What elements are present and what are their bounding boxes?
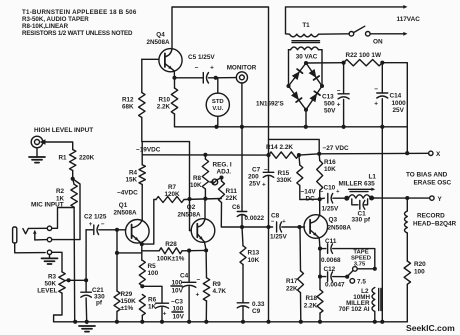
wire Y line <box>372 197 430 199</box>
wire Q1 emitter <box>141 243 142 245</box>
svg-text:1/25V: 1/25V <box>322 206 339 213</box>
svg-text:−4VDC: −4VDC <box>117 190 138 197</box>
svg-text:−: − <box>374 86 378 93</box>
wire Q2 top <box>204 199 206 219</box>
svg-text:Q4: Q4 <box>156 32 165 39</box>
svg-text:R22 100 1W: R22 100 1W <box>346 52 382 59</box>
svg-text:T1-BURNSTEIN APPLEBEE 18 B 506: T1-BURNSTEIN APPLEBEE 18 B 506 <box>22 9 137 16</box>
capacitor C4 <box>188 251 190 282</box>
svg-text:−: − <box>337 88 341 95</box>
resistor R4 <box>139 165 145 185</box>
svg-text:C12: C12 <box>324 266 336 273</box>
svg-text:1N1692'S: 1N1692'S <box>256 101 284 108</box>
svg-text:+: + <box>337 102 341 109</box>
wire -19VDC line <box>142 154 268 156</box>
wire R7 right node <box>184 199 221 200</box>
svg-text:120K: 120K <box>164 191 180 198</box>
svg-text:500: 500 <box>324 101 335 108</box>
svg-text:Q3: Q3 <box>329 217 338 224</box>
switch TAPE SPEED <box>348 271 353 276</box>
wire Q4 emitter <box>173 72 175 78</box>
resistor R14 <box>269 152 299 158</box>
svg-text:100: 100 <box>148 270 159 277</box>
svg-text:R9: R9 <box>213 281 222 288</box>
wire ground bus <box>54 321 408 323</box>
svg-text:C2 1/25: C2 1/25 <box>84 214 107 221</box>
svg-text:100K±1%: 100K±1% <box>157 256 185 263</box>
svg-text:R11: R11 <box>226 188 238 195</box>
svg-text:70F 102 AI: 70F 102 AI <box>339 306 370 313</box>
wire mic sleeve to R3 <box>52 252 62 272</box>
inductor L1 <box>344 196 349 201</box>
resistor R1 <box>70 150 76 171</box>
svg-text:R16: R16 <box>324 159 336 166</box>
svg-text:R8: R8 <box>193 175 202 182</box>
svg-text:1/25V: 1/25V <box>270 234 287 241</box>
capacitor C7 <box>268 155 270 172</box>
svg-text:10V: 10V <box>172 288 184 295</box>
transformer T1 primary <box>286 33 290 35</box>
capacitor C3 <box>142 286 162 303</box>
resistor R20 <box>404 261 410 284</box>
capacitor C11 <box>320 248 326 250</box>
svg-text:REG. I: REG. I <box>213 162 232 169</box>
svg-text:−14V: −14V <box>301 189 317 196</box>
wire wiper line to C21 <box>85 280 87 291</box>
svg-text:Y: Y <box>438 196 443 203</box>
capacitor C6 <box>237 211 247 213</box>
svg-text:10K: 10K <box>248 257 260 264</box>
svg-text:−C3: −C3 <box>171 299 183 306</box>
switch contact 7.5 <box>350 279 355 284</box>
capacitor C21 <box>81 291 92 293</box>
R3 wiper arrow <box>66 279 70 283</box>
wire base branch to R29 <box>116 230 118 291</box>
svg-text:pf: pf <box>96 300 103 307</box>
bridge diode D2 <box>309 69 317 78</box>
svg-text:200: 200 <box>248 174 259 181</box>
svg-text:ERASE OSC: ERASE OSC <box>414 180 452 187</box>
svg-text:R4: R4 <box>129 170 138 177</box>
wire supply rail <box>175 126 408 128</box>
svg-text:22K: 22K <box>286 286 298 293</box>
transformer T1 secondary <box>291 47 319 50</box>
svg-text:100: 100 <box>414 269 425 276</box>
svg-text:TO BIAS AND: TO BIAS AND <box>406 172 448 179</box>
svg-text:MONITOR: MONITOR <box>227 65 257 72</box>
svg-text:−: − <box>101 221 105 228</box>
wire C2 to Q1 base <box>117 229 126 231</box>
svg-text:R14 2.2K: R14 2.2K <box>266 144 293 151</box>
wire X line <box>319 152 428 155</box>
bridge diode D3 <box>291 91 299 100</box>
resistor R12 <box>139 93 145 118</box>
svg-text:0.0068: 0.0068 <box>321 257 341 264</box>
jack HIGH LEVEL INPUT <box>31 136 43 148</box>
R8 wiper <box>210 180 214 183</box>
svg-text:2.2K: 2.2K <box>157 104 171 111</box>
switch ON <box>349 32 354 37</box>
svg-text:−: − <box>197 277 201 284</box>
mic contact 2 <box>47 237 51 241</box>
svg-text:ON: ON <box>373 39 383 46</box>
svg-text:C6: C6 <box>232 204 241 211</box>
svg-text:C13: C13 <box>322 94 334 101</box>
ground bottom bus <box>86 322 88 324</box>
svg-text:−: − <box>264 167 268 174</box>
mic contact 3 <box>47 250 51 254</box>
svg-text:R20: R20 <box>414 261 426 268</box>
svg-text:0.0022: 0.0022 <box>245 215 265 222</box>
svg-text:RESISTORS 1/2 WATT UNLESS NOTE: RESISTORS 1/2 WATT UNLESS NOTED <box>22 30 133 37</box>
svg-text:R10: R10 <box>158 97 170 104</box>
svg-text:2N508A: 2N508A <box>146 39 170 46</box>
svg-text:1000: 1000 <box>392 100 407 107</box>
wire Q2 base <box>189 199 191 231</box>
mic V contact <box>23 229 28 234</box>
wire monitor column below rail <box>241 127 243 207</box>
svg-text:+: + <box>262 182 266 189</box>
resistor R7 <box>156 197 184 203</box>
svg-text:10K: 10K <box>190 182 202 189</box>
svg-text:R8-10K,LINEAR: R8-10K,LINEAR <box>22 23 69 30</box>
resistor R16 <box>318 154 321 161</box>
svg-text:C7: C7 <box>252 167 261 174</box>
svg-text:T1: T1 <box>302 22 310 29</box>
wire base line <box>242 226 273 228</box>
svg-text:R17: R17 <box>286 278 298 285</box>
svg-text:150K: 150K <box>121 298 137 305</box>
resistor R22 <box>342 61 346 65</box>
capacitor C1 <box>352 199 358 205</box>
svg-text:RECORD: RECORD <box>417 213 445 220</box>
transistor Q1 <box>126 220 150 244</box>
svg-text:220K: 220K <box>79 155 95 162</box>
svg-text:R13: R13 <box>248 250 260 257</box>
jack MIC INPUT body <box>13 227 17 243</box>
wire Q4 collector to top rail <box>172 7 269 155</box>
wire jack to R1 <box>43 142 73 150</box>
svg-text:SeekIC.com: SeekIC.com <box>406 323 455 333</box>
potentiometer R3 <box>59 272 65 293</box>
svg-text:10V: 10V <box>173 314 185 321</box>
L1 core arrow <box>349 188 372 190</box>
svg-text:R15: R15 <box>278 170 290 177</box>
wire R14 bypass <box>269 139 320 153</box>
wire R7 left lead <box>142 200 156 245</box>
potentiometer R8 <box>203 153 207 157</box>
svg-text:7.5: 7.5 <box>357 279 366 286</box>
wire 117VAC top line <box>286 7 405 34</box>
jack MONITOR <box>236 72 247 83</box>
resistor R18 <box>319 277 321 290</box>
svg-text:0.33: 0.33 <box>252 301 265 308</box>
svg-text:10K: 10K <box>324 166 336 173</box>
svg-text:X: X <box>436 151 441 158</box>
wire Q2 bottom <box>205 242 207 250</box>
svg-text:Q2: Q2 <box>187 204 196 211</box>
svg-text:+: + <box>89 221 93 228</box>
svg-text:22K: 22K <box>226 195 238 202</box>
svg-text:330K: 330K <box>277 177 293 184</box>
inductor L2 <box>372 288 375 312</box>
bridge diode D1 <box>292 71 300 80</box>
wire Q3 bottom <box>318 238 321 249</box>
meter STD V.U. <box>217 78 219 93</box>
svg-text:DC: DC <box>306 196 316 203</box>
ground mic <box>49 255 51 259</box>
svg-text:68K: 68K <box>122 104 134 111</box>
svg-text:15K: 15K <box>125 177 137 184</box>
svg-text:R1: R1 <box>58 155 67 162</box>
resistor R29 <box>114 291 120 312</box>
resistor R13 <box>242 227 243 246</box>
wire Q4 base <box>142 58 159 60</box>
svg-text:C5 1/25V: C5 1/25V <box>188 54 215 61</box>
svg-text:−: − <box>195 65 199 72</box>
svg-text:C10: C10 <box>324 185 336 192</box>
transformer T1 core <box>292 40 320 42</box>
capacitor C14 <box>381 63 383 93</box>
inductor record head <box>406 198 408 211</box>
wire R20 to bus <box>406 284 408 322</box>
capacitor C9 <box>237 302 249 304</box>
svg-text:R7: R7 <box>168 184 177 191</box>
svg-text:±1%: ±1% <box>121 305 134 312</box>
svg-text:330 pf: 330 pf <box>352 217 371 224</box>
svg-text:2N508A: 2N508A <box>328 225 352 232</box>
resistor R15 <box>298 155 301 165</box>
svg-text:25V: 25V <box>249 181 261 188</box>
resistor R6 <box>139 295 145 316</box>
capacitor C12 <box>319 249 321 277</box>
svg-text:C14: C14 <box>390 93 402 100</box>
svg-text:ADJ.: ADJ. <box>217 169 232 176</box>
resistor R28 <box>142 250 159 252</box>
transistor Q3 <box>304 215 328 239</box>
mic contact 1 <box>47 226 51 230</box>
svg-text:C4: C4 <box>180 273 189 280</box>
svg-text:R3-50K, AUDIO TAPER: R3-50K, AUDIO TAPER <box>22 16 89 23</box>
svg-text:C11: C11 <box>325 238 337 245</box>
svg-text:R3: R3 <box>48 274 57 281</box>
capacitor C8 <box>276 222 278 232</box>
svg-text:+: + <box>163 311 167 318</box>
svg-text:Q1: Q1 <box>119 202 128 209</box>
svg-text:HEAD−B2Q4R: HEAD−B2Q4R <box>413 221 457 228</box>
wire C2 left to wiper line <box>85 230 87 280</box>
svg-text:+: + <box>374 101 378 108</box>
svg-text:−: − <box>271 219 275 225</box>
svg-text:+: + <box>210 65 214 72</box>
svg-text:R6: R6 <box>148 297 157 304</box>
svg-text:117VAC: 117VAC <box>397 16 421 23</box>
svg-text:−27 VDC: −27 VDC <box>323 145 349 152</box>
bridge rectifier diamond <box>289 63 323 110</box>
svg-text:2N508A: 2N508A <box>113 210 137 217</box>
svg-text:+: + <box>196 292 200 299</box>
resistor R10 <box>174 78 176 88</box>
wire Q3 top <box>319 199 321 215</box>
capacitor C2 <box>86 229 94 231</box>
svg-text:V.U.: V.U. <box>212 106 223 112</box>
wire R12 bottom / -19VDC corner <box>142 118 190 199</box>
resistor R9 <box>205 250 207 277</box>
resistor R17 <box>299 227 302 271</box>
svg-text:3.75: 3.75 <box>354 262 366 268</box>
wire R1R2 node to mic ring <box>52 179 80 240</box>
resistor R11 <box>221 178 223 182</box>
svg-text:C9: C9 <box>252 308 261 315</box>
capacitor C13 <box>343 63 345 94</box>
svg-text:0.0047: 0.0047 <box>325 282 345 289</box>
svg-text:R2: R2 <box>56 188 65 195</box>
svg-text:25V: 25V <box>393 107 405 114</box>
svg-text:R18: R18 <box>305 295 317 302</box>
svg-text:LEVEL: LEVEL <box>37 288 57 295</box>
mic tip arrow <box>34 232 36 240</box>
svg-text:30 VAC: 30 VAC <box>296 54 318 61</box>
svg-text:R5: R5 <box>148 263 157 270</box>
svg-text:HIGH LEVEL INPUT: HIGH LEVEL INPUT <box>34 127 93 134</box>
svg-text:R28: R28 <box>165 241 177 248</box>
wire mic tip to R2 bottom <box>52 208 74 229</box>
transistor Q2 <box>191 219 215 243</box>
resistor R5 <box>139 260 145 286</box>
svg-text:−19VDC: −19VDC <box>136 147 161 154</box>
ground high level input <box>36 148 38 157</box>
svg-text:STD: STD <box>212 99 224 105</box>
svg-text:50K: 50K <box>44 281 56 288</box>
svg-text:R29: R29 <box>121 291 133 298</box>
svg-text:1K: 1K <box>148 304 157 311</box>
svg-text:4.7K: 4.7K <box>213 288 227 295</box>
svg-text:50V: 50V <box>324 108 336 115</box>
bridge diode D4 <box>310 93 318 102</box>
capacitor C5 <box>175 77 204 79</box>
svg-text:R12: R12 <box>122 97 134 104</box>
svg-text:MILLER 635: MILLER 635 <box>339 180 376 187</box>
capacitor C10 <box>320 197 325 200</box>
transistor Q4 <box>159 49 182 72</box>
svg-text:2.2K: 2.2K <box>304 303 318 310</box>
resistor R2 <box>73 179 74 185</box>
wire R4 to Q1 collector <box>141 185 143 221</box>
